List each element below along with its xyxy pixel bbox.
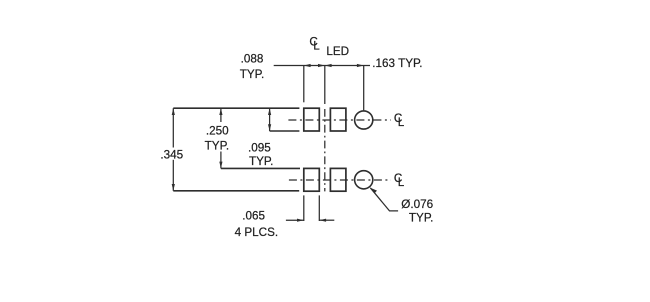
- body edge row2 bottom: [173, 190, 299, 192]
- arrow .163 left: [325, 64, 332, 67]
- arrow .088 right: [318, 64, 325, 67]
- svg-text:L: L: [398, 176, 405, 189]
- svg-text:TYP.: TYP.: [240, 68, 264, 81]
- dimension line top (.088 / .163): [274, 65, 370, 67]
- dimension .095 vertical line: [269, 108, 271, 131]
- LED hole row1 (circle): [355, 111, 373, 129]
- dimension .345 vertical line: [172, 108, 174, 191]
- dimension .250 vertical line: [220, 108, 222, 168]
- centerline vertical CL: [324, 66, 326, 192]
- body edge row1 top: [173, 107, 299, 109]
- arrow .095 bottom: [268, 124, 271, 131]
- label dia .076 TYP.: [401, 198, 433, 225]
- centerline horizontal row1: [288, 119, 391, 121]
- extension line circle center: [363, 66, 365, 111]
- body edge row2 top: [221, 167, 300, 169]
- label .088 TYP.: [240, 53, 264, 81]
- svg-text:L: L: [398, 116, 405, 129]
- pad P4 (row2 right square): [330, 168, 346, 191]
- pad P3 (row2 left square): [304, 168, 320, 191]
- pad P2 (row1 right square): [330, 108, 346, 131]
- arrow .250 top: [219, 108, 222, 115]
- arrow leader .076: [370, 188, 377, 193]
- svg-text:4 PLCS.: 4 PLCS.: [235, 226, 279, 239]
- svg-text:.250: .250: [206, 124, 229, 137]
- svg-text:TYP.: TYP.: [249, 155, 273, 168]
- arrow .345 top: [172, 108, 175, 115]
- LED hole row2 (circle): [355, 171, 373, 189]
- body edge row1 bottom: [270, 130, 300, 132]
- svg-text:L: L: [313, 39, 320, 52]
- label .065 4 PLCS.: [235, 209, 279, 239]
- arrow .345 bottom: [172, 184, 175, 191]
- arrow .163 right: [357, 64, 364, 67]
- arrow .250 bottom: [219, 162, 222, 169]
- svg-text:.065: .065: [242, 209, 265, 222]
- svg-text:.345: .345: [160, 148, 183, 161]
- svg-text:Ø.076: Ø.076: [401, 198, 433, 211]
- extension line left pad edge: [303, 66, 305, 103]
- svg-text:LED: LED: [326, 45, 349, 58]
- pad P1 (row1 left square): [304, 108, 320, 131]
- svg-text:.088: .088: [241, 53, 264, 66]
- svg-text:.095: .095: [248, 141, 271, 154]
- label .095 TYP.: [248, 141, 273, 167]
- dimension .065 extension lines: [304, 195, 320, 221]
- svg-text:TYP.: TYP.: [409, 212, 433, 225]
- label centerline symbol top: [309, 35, 320, 52]
- svg-text:TYP.: TYP.: [205, 140, 229, 153]
- arrow .065 left: [297, 219, 304, 222]
- centerline horizontal row2: [289, 179, 391, 181]
- arrow .088 left: [304, 64, 311, 67]
- svg-text:.163 TYP.: .163 TYP.: [372, 57, 422, 70]
- label centerline symbol row2: [394, 172, 405, 189]
- arrow .065 right: [319, 219, 326, 222]
- leader line dia .076: [370, 188, 398, 211]
- label .250 TYP.: [205, 124, 230, 152]
- label centerline symbol row1: [394, 112, 405, 129]
- arrow .095 top: [268, 108, 271, 115]
- dimension .065 arrow tails: [286, 219, 334, 221]
